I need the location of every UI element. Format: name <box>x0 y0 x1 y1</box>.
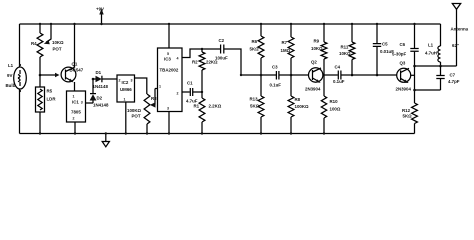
svg-text:2.2KΩ: 2.2KΩ <box>209 104 222 109</box>
wire IC2 pin3 to volume pot <box>135 78 147 94</box>
capacitor C7 4.7pF <box>436 66 459 90</box>
wire IC2 pin1 to bottom rail <box>125 102 127 134</box>
wire C2 to audio node <box>224 49 241 75</box>
wire IC1 pin2 to bottom rail <box>74 122 76 134</box>
wire R7 to node D <box>290 58 292 96</box>
wire IC3 pin4 to C2 <box>182 49 220 58</box>
resistor R7 1M <box>281 23 294 58</box>
wire C2 line to R2 <box>201 48 203 50</box>
svg-text:IC1: IC1 <box>72 100 79 105</box>
svg-text:1: 1 <box>159 85 161 89</box>
svg-text:2: 2 <box>73 117 75 121</box>
svg-text:3: 3 <box>131 79 133 83</box>
resistor R1 2.2K <box>194 98 222 122</box>
svg-text:C3: C3 <box>272 65 278 70</box>
svg-text:1N4148: 1N4148 <box>93 84 109 89</box>
potentiometer R3 100K POT volume <box>127 89 157 125</box>
potentiometer R4 10K POT <box>31 23 64 57</box>
svg-text:3: 3 <box>81 101 83 105</box>
resistor R12 5K <box>402 103 417 124</box>
resistor R2 22K <box>192 52 218 70</box>
resistor R6 5K <box>250 23 264 58</box>
wire Q2 collector-emitter vertical <box>323 59 325 96</box>
svg-text:3: 3 <box>167 107 169 111</box>
svg-text:2N3904: 2N3904 <box>305 87 321 92</box>
resistor R11 10K <box>339 23 355 60</box>
svg-text:R11: R11 <box>341 45 349 50</box>
wire R2 to C1 node <box>201 70 203 98</box>
svg-text:R3: R3 <box>151 96 157 101</box>
capacitor C2 100uF <box>215 38 228 61</box>
svg-text:+9V: +9V <box>96 7 104 12</box>
svg-text:L1: L1 <box>428 43 434 48</box>
svg-text:IC2: IC2 <box>122 80 129 85</box>
svg-text:Bulb: Bulb <box>6 83 16 88</box>
svg-text:1N4148: 1N4148 <box>93 103 109 108</box>
resistor R9 10K <box>311 23 327 59</box>
regulator IC1 7805 <box>67 91 86 122</box>
capacitor C3 0.1uF <box>270 65 292 88</box>
svg-text:C1: C1 <box>187 81 193 86</box>
svg-text:Q2: Q2 <box>311 60 317 65</box>
svg-text:4.7pF: 4.7pF <box>448 79 460 84</box>
melody IC2 UM66 <box>117 75 135 102</box>
svg-text:C6: C6 <box>400 42 406 47</box>
svg-text:BC547: BC547 <box>70 68 84 73</box>
wire R12 to bottom rail corner <box>414 124 416 134</box>
svg-text:100KΩ: 100KΩ <box>127 108 141 113</box>
wire R1 to bottom rail <box>201 122 203 134</box>
svg-text:22KΩ: 22KΩ <box>206 60 218 65</box>
ground symbol <box>102 132 109 147</box>
svg-text:Antenna: Antenna <box>451 27 469 32</box>
svg-text:C5: C5 <box>382 42 388 47</box>
svg-text:1: 1 <box>124 98 126 102</box>
svg-text:0.1uF: 0.1uF <box>270 83 282 88</box>
transistor Q1 BC547 <box>61 62 84 83</box>
svg-text:4.7uH: 4.7uH <box>425 51 437 56</box>
svg-text:5KΩ: 5KΩ <box>250 104 260 109</box>
wire top +9V rail <box>20 23 441 25</box>
svg-text:62": 62" <box>452 43 459 48</box>
wire Q1 collector to rail <box>74 24 76 68</box>
capacitor C6 5-30pF <box>392 23 419 57</box>
svg-text:R6: R6 <box>252 39 258 44</box>
capacitor C5 0.01uF <box>373 23 394 76</box>
svg-text:Q3: Q3 <box>400 61 406 66</box>
svg-text:2: 2 <box>177 92 179 96</box>
svg-text:R4: R4 <box>31 41 37 46</box>
svg-text:4: 4 <box>177 57 179 61</box>
wire C4 to C5 node <box>351 74 377 76</box>
capacitor C1 4.7uF <box>186 81 202 104</box>
wire Q2 output to C4 <box>324 74 338 76</box>
svg-text:10KΩ: 10KΩ <box>339 51 351 56</box>
svg-text:R2: R2 <box>192 60 198 65</box>
resistor R13 5K <box>250 96 264 117</box>
wire R6 to node C <box>260 58 262 96</box>
svg-text:0.1uF: 0.1uF <box>333 79 345 84</box>
node +9V supply arrow and label <box>96 7 104 26</box>
wire audio bus <box>241 74 276 76</box>
svg-text:R1: R1 <box>194 104 200 109</box>
wire IC1 pin3 to D2 <box>86 102 94 104</box>
wire Q3 collector-emitter vertical <box>414 52 416 103</box>
svg-text:TBA2002: TBA2002 <box>160 68 179 73</box>
resistor R8 100K <box>288 96 309 117</box>
amplifier IC3 TBA2002 <box>158 48 183 112</box>
svg-text:D2: D2 <box>97 96 103 101</box>
svg-text:LDR: LDR <box>47 97 57 102</box>
svg-text:100KΩ: 100KΩ <box>295 104 309 109</box>
diode D1 1N4148 <box>93 70 118 89</box>
svg-text:5KΩ: 5KΩ <box>403 114 413 119</box>
battery B1 9V <box>6 63 27 92</box>
wire pot bottom to rail <box>146 124 148 134</box>
wire IC3 pin2 to C1 <box>182 91 190 93</box>
svg-text:L1: L1 <box>8 63 14 68</box>
wire node D to Q2 base <box>291 74 308 76</box>
wire R11 to RF base line <box>351 60 353 76</box>
wire R10 to bottom rail <box>323 118 325 134</box>
wire battery top lead <box>19 24 21 67</box>
svg-text:100Ω: 100Ω <box>330 107 341 112</box>
svg-text:IC3: IC3 <box>164 57 171 62</box>
svg-text:D1: D1 <box>96 70 102 75</box>
wire pot wiper to IC3 pin1 <box>155 88 158 90</box>
svg-text:2N3904: 2N3904 <box>396 87 412 92</box>
wire C5 node to Q3 base <box>377 74 397 76</box>
svg-text:10KΩ: 10KΩ <box>52 40 64 45</box>
svg-text:C2: C2 <box>219 38 225 43</box>
svg-text:POT: POT <box>53 47 62 52</box>
svg-text:R5: R5 <box>47 89 53 94</box>
inductor L1 4.7uH <box>425 24 442 67</box>
antenna <box>451 4 469 67</box>
wire LDR to bottom rail <box>39 112 41 134</box>
capacitor C4 0.1uF <box>333 65 351 85</box>
svg-text:10KΩ: 10KΩ <box>311 46 323 51</box>
svg-text:UM66: UM66 <box>120 87 132 92</box>
wire C7 return to emitter <box>415 89 441 91</box>
svg-text:R12: R12 <box>402 108 411 113</box>
wire rail to R4 <box>39 24 41 33</box>
node B D1-D2 junction <box>92 78 95 81</box>
wire IC3 pin3 to bottom rail <box>168 112 170 134</box>
svg-text:5-30pF: 5-30pF <box>392 52 406 57</box>
svg-text:2: 2 <box>119 79 121 83</box>
svg-text:9V: 9V <box>7 73 12 78</box>
resistor R10 100ohm <box>321 96 341 118</box>
wire R13 to bottom rail <box>260 117 262 134</box>
svg-text:1MΩ: 1MΩ <box>281 48 291 53</box>
wire Q1 emitter to IC1 <box>74 82 76 91</box>
svg-text:POT: POT <box>132 114 141 119</box>
svg-text:R9: R9 <box>314 39 320 44</box>
transistor Q3 2N3904 <box>396 61 415 92</box>
svg-text:C7: C7 <box>450 73 456 78</box>
wire tank line <box>415 65 457 67</box>
transistor Q2 2N3904 <box>305 60 323 92</box>
svg-text:5: 5 <box>167 52 169 56</box>
wire bottom ground rail <box>20 133 415 135</box>
wire R4 to node A <box>39 57 41 75</box>
svg-text:C4: C4 <box>335 65 341 70</box>
svg-text:7805: 7805 <box>71 110 81 115</box>
wire IC3 pin5 to rail <box>168 24 170 48</box>
wire node A to Q1 base <box>40 74 56 76</box>
wire battery bottom lead <box>19 89 21 134</box>
wire R8 to bottom rail <box>290 117 292 134</box>
svg-text:R7: R7 <box>282 40 288 45</box>
node A divider junction <box>39 74 42 77</box>
svg-text:R13: R13 <box>250 97 259 102</box>
svg-text:R8: R8 <box>295 97 301 102</box>
svg-text:5KΩ: 5KΩ <box>250 47 260 52</box>
LDR R5 <box>36 75 57 112</box>
diode D2 1N4148 <box>90 79 109 108</box>
svg-text:1: 1 <box>73 95 75 99</box>
svg-text:R10: R10 <box>330 99 339 104</box>
